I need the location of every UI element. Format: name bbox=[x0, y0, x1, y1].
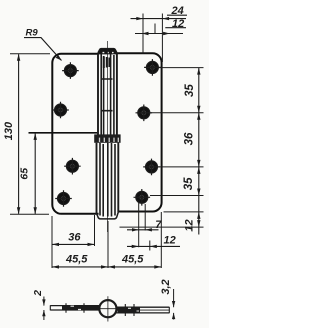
svg-text:24: 24 bbox=[171, 5, 184, 17]
dim 36 bottom left bbox=[52, 215, 95, 268]
screw hole L2 bbox=[52, 102, 69, 119]
dim 12 right vertical bbox=[120, 196, 204, 235]
left card outline bbox=[52, 54, 98, 214]
svg-text:R9: R9 bbox=[26, 28, 39, 39]
svg-text:36: 36 bbox=[68, 231, 81, 243]
knuckle tick marks bbox=[102, 79, 113, 111]
svg-text:45,5: 45,5 bbox=[121, 254, 144, 266]
dim 35 upper bbox=[197, 68, 200, 196]
dim 12 bottom bbox=[127, 212, 180, 268]
dim 36 right bbox=[197, 113, 200, 167]
svg-text:65: 65 bbox=[19, 168, 31, 180]
right card outline bbox=[117, 53, 162, 211]
dim 3,2 bbox=[172, 289, 175, 320]
knuckle centerline bbox=[107, 41, 109, 232]
svg-text:36: 36 bbox=[183, 132, 195, 145]
svg-text:35: 35 bbox=[183, 177, 195, 190]
screw hole L1 bbox=[62, 62, 79, 79]
svg-text:12: 12 bbox=[164, 235, 176, 247]
screw hole R3 bbox=[143, 159, 160, 176]
right dim chain extension lines bbox=[150, 68, 204, 196]
R9 leader bbox=[24, 38, 62, 61]
pin cap bbox=[98, 48, 117, 54]
svg-text:35: 35 bbox=[184, 84, 196, 97]
svg-text:130: 130 bbox=[3, 121, 15, 140]
dim 35 lower bbox=[197, 167, 200, 196]
dim 7 bbox=[127, 203, 159, 247]
screw hole R4 bbox=[134, 189, 151, 206]
screw hole R1 bbox=[144, 59, 161, 76]
pin bottom end bbox=[97, 212, 119, 219]
screw hole R2 bbox=[136, 105, 153, 122]
dim 12 top bbox=[135, 24, 186, 36]
screw hole L4 bbox=[55, 190, 72, 207]
svg-text:12: 12 bbox=[172, 18, 184, 30]
dim 45,5 right bbox=[108, 265, 161, 268]
dim 2 bbox=[42, 297, 45, 321]
svg-text:12: 12 bbox=[184, 219, 196, 231]
knuckle collar bbox=[94, 134, 120, 142]
svg-text:2: 2 bbox=[32, 290, 44, 297]
screw hole L3 bbox=[64, 158, 81, 175]
left card mid line bbox=[29, 132, 98, 134]
bottom view knuckle circle bbox=[97, 296, 120, 321]
bottom view right plate bbox=[117, 304, 170, 316]
knuckle lower column bbox=[97, 143, 119, 217]
knuckle upper column bbox=[98, 53, 117, 135]
dim 130 bbox=[10, 54, 50, 214]
svg-text:45,5: 45,5 bbox=[65, 254, 88, 266]
dim 65 bbox=[34, 133, 37, 214]
dim 45,5 left bbox=[52, 221, 108, 269]
svg-text:3,2: 3,2 bbox=[160, 279, 172, 294]
dim 24 bbox=[131, 14, 188, 63]
bottom view left plate bbox=[50, 303, 99, 313]
